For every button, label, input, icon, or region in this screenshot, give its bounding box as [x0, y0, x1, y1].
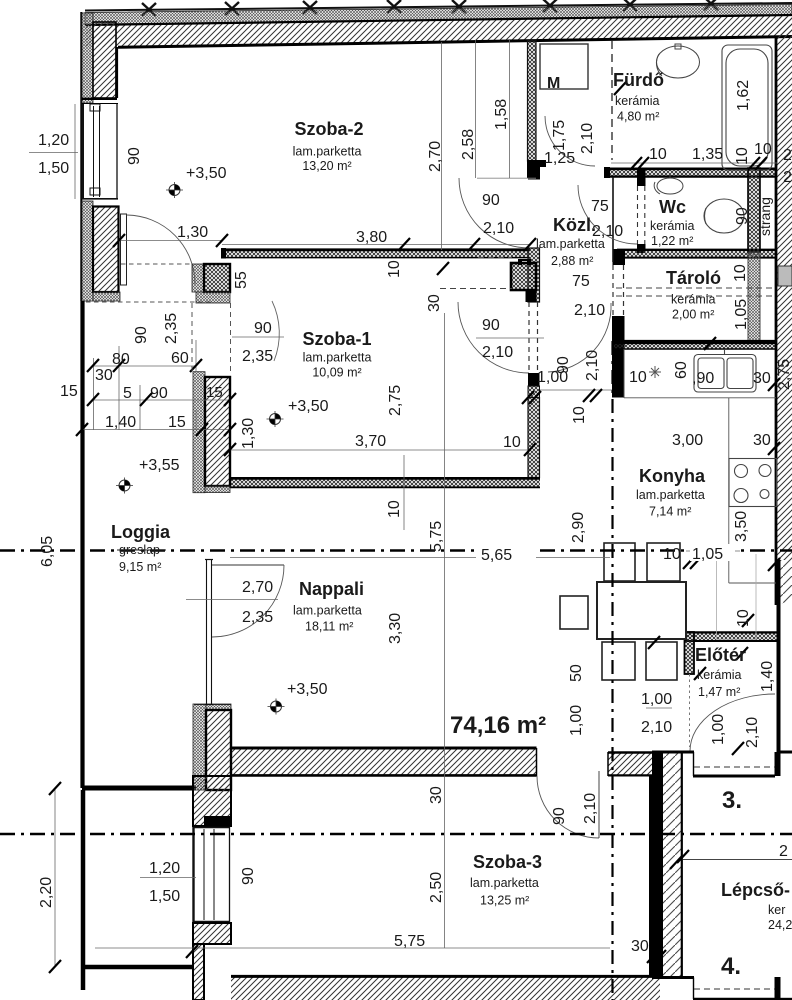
svg-text:30: 30 [753, 432, 771, 449]
svg-text:2: 2 [783, 169, 792, 186]
svg-text:2,35: 2,35 [242, 348, 273, 365]
section line vertical [611, 341, 613, 1000]
svg-text:15: 15 [206, 384, 223, 401]
svg-text:Tároló: Tároló [666, 268, 721, 288]
svg-text:90: 90 [240, 867, 257, 885]
svg-text:3,00: 3,00 [672, 432, 703, 449]
svg-text:10: 10 [629, 369, 647, 386]
svg-text:3,30: 3,30 [387, 613, 404, 644]
section line horizontal B [0, 833, 792, 836]
toilet [704, 199, 744, 233]
Szoba-1 top wall band [222, 250, 530, 258]
niche wall insulation strip [192, 264, 204, 292]
section line horizontal A [0, 549, 792, 552]
svg-text:90: 90 [133, 326, 150, 344]
svg-text:90: 90 [482, 317, 500, 334]
svg-text:lam.parketta: lam.parketta [470, 876, 539, 890]
svg-text:1,50: 1,50 [38, 160, 69, 177]
svg-text:3,70: 3,70 [355, 433, 386, 450]
dim line 3,70 szoba-1 [230, 449, 530, 451]
svg-text:2,10: 2,10 [579, 123, 596, 154]
top dimension line with X ticks [85, 3, 792, 11]
svg-text:1,30: 1,30 [240, 418, 257, 449]
Szoba-2 door leaf [121, 214, 127, 285]
white gap for 5,65 text [476, 542, 536, 561]
svg-text:1,35: 1,35 [692, 146, 723, 163]
svg-text:kerámia: kerámia [671, 293, 716, 307]
svg-text:2,88 m²: 2,88 m² [551, 254, 593, 268]
svg-text:,90: ,90 [692, 370, 714, 387]
svg-text:2,90: 2,90 [570, 512, 587, 543]
svg-text:13,20 m²: 13,20 m² [302, 159, 351, 173]
svg-text:3.: 3. [722, 787, 742, 814]
svg-text:2,10: 2,10 [592, 223, 623, 240]
svg-text:10: 10 [735, 609, 752, 627]
stove with burners [729, 459, 777, 507]
svg-text:10: 10 [663, 546, 681, 563]
svg-text:9,15 m²: 9,15 m² [119, 560, 161, 574]
svg-text:1,20: 1,20 [38, 132, 69, 149]
svg-text:+3,55: +3,55 [139, 457, 180, 474]
Szoba-3 west wall lower [193, 923, 231, 944]
Előtér dims [646, 707, 672, 709]
svg-text:75: 75 [591, 198, 609, 215]
level symbol Nappali [268, 699, 285, 715]
dashes near pillar [440, 288, 512, 290]
level symbol Loggia [116, 478, 133, 494]
svg-text:Közl.: Közl. [553, 215, 596, 235]
Tároló dashed shelf lines [616, 287, 776, 289]
svg-text:2,50: 2,50 [428, 872, 445, 903]
svg-text:90: 90 [126, 147, 143, 165]
5,75 bottom dim [95, 947, 610, 949]
svg-text:10: 10 [503, 434, 521, 451]
lower balcony left line [81, 790, 86, 990]
svg-text:1,62: 1,62 [735, 80, 752, 111]
svg-text:90: 90 [551, 807, 568, 825]
washing machine M square [540, 44, 588, 89]
Nappali-Loggia door leaf [212, 564, 284, 566]
svg-text:1,05: 1,05 [692, 546, 723, 563]
Előtér north wall band [684, 632, 777, 641]
Loggia parapet [80, 301, 84, 788]
svg-text:90: 90 [150, 385, 168, 402]
svg-text:+3,50: +3,50 [288, 398, 329, 415]
svg-text:2,70: 2,70 [427, 141, 444, 172]
svg-text:2,58: 2,58 [460, 129, 477, 160]
right exterior wall hatch [777, 16, 792, 560]
svg-text:+3,50: +3,50 [186, 165, 227, 182]
small fixture above pillar [518, 259, 531, 265]
Loggia/Nappali divider wall lower [193, 704, 206, 790]
svg-text:4.: 4. [721, 953, 741, 980]
niche wall core (55 pillar) [204, 264, 230, 292]
Szoba-3 west wall upper [193, 776, 231, 826]
Szoba-3 south wall band [231, 976, 660, 1000]
shaft lines lower [748, 252, 760, 341]
svg-text:lam.parketta: lam.parketta [293, 145, 362, 159]
svg-text:Wc: Wc [659, 197, 686, 217]
dimension texts rotated [38, 80, 792, 908]
svg-text:3,80: 3,80 [356, 229, 387, 246]
Szoba-3 window [193, 827, 230, 922]
Fürdő sink [656, 44, 699, 78]
left exterior wall (top) insulation [82, 13, 93, 103]
svg-text:strang: strang [757, 197, 773, 236]
svg-text:2,10: 2,10 [744, 717, 761, 748]
svg-text:Lépcső-: Lépcső- [721, 880, 790, 900]
svg-text:Szoba-3: Szoba-3 [473, 852, 542, 872]
svg-text:10: 10 [734, 147, 751, 165]
Fürdő dim line 10/1,35 [611, 162, 777, 164]
dining table [597, 582, 686, 639]
staircase landing line [683, 859, 792, 861]
svg-text:Nappali: Nappali [299, 579, 364, 599]
left wall piece W2 core [93, 207, 119, 293]
svg-text:24,2: 24,2 [768, 918, 792, 932]
svg-text:Szoba-1: Szoba-1 [302, 329, 371, 349]
svg-text:1,20: 1,20 [149, 860, 180, 877]
Szoba-1 door arc [458, 302, 529, 373]
svg-text:10: 10 [571, 406, 588, 424]
svg-text:5,75: 5,75 [428, 521, 445, 552]
Tároló west wall lower / kitchen stub [612, 316, 625, 398]
Közl east boundary thin wall line [612, 177, 614, 262]
gray block right [778, 266, 792, 286]
corner block at Közl top-left [527, 160, 546, 167]
svg-text:5,65: 5,65 [481, 547, 512, 564]
svg-text:Konyha: Konyha [639, 466, 706, 486]
Loggia/Nappali divider wall upper [193, 372, 205, 493]
Szoba-2 entry door arc (from Közl) [459, 178, 529, 248]
Fürdő west boundary dashed [611, 41, 613, 160]
Előtér west wall stub [685, 632, 695, 674]
Előtér east wall line [777, 560, 781, 752]
Nappali-Loggia window [207, 559, 212, 705]
bottom window dim [140, 877, 196, 879]
svg-text:10: 10 [386, 260, 403, 278]
svg-text:Szoba-2: Szoba-2 [294, 119, 363, 139]
dim line 3,80 [222, 244, 530, 246]
Nappali south wall band (left part) [230, 748, 536, 776]
Szoba-1 east wall upper [528, 248, 540, 302]
svg-text:1,00: 1,00 [641, 691, 672, 708]
strang shaft west wall [748, 168, 760, 252]
svg-text:90: 90 [555, 356, 572, 374]
level symbol Szoba-2 [166, 182, 183, 198]
staircase top boundary [652, 751, 694, 754]
svg-text:30: 30 [753, 370, 771, 387]
svg-text:M: M [547, 75, 560, 92]
svg-text:1,40: 1,40 [105, 414, 136, 431]
chairs [560, 543, 680, 680]
Szoba-3 east wall (thick black) [649, 776, 662, 977]
Közl south wall stub [528, 373, 540, 386]
svg-text:90: 90 [254, 320, 272, 337]
svg-text:50: 50 [568, 664, 585, 682]
Nappali south wall band (right part) [608, 752, 656, 776]
svg-text:30: 30 [95, 367, 113, 384]
svg-text:2: 2 [783, 147, 792, 164]
Szoba-3 top wall band [230, 747, 232, 749]
svg-text:90: 90 [482, 192, 500, 209]
svg-text:1,47 m²: 1,47 m² [698, 685, 740, 699]
svg-text:5: 5 [123, 385, 132, 402]
svg-text:5,75: 5,75 [394, 933, 425, 950]
Szoba-1 east wall lower [528, 398, 540, 478]
pillar at Szoba-1 junction [511, 263, 536, 290]
window W1 (left wall, Szoba-2) [82, 104, 118, 199]
svg-text:74,16 m²: 74,16 m² [450, 712, 546, 739]
svg-text:Fürdő: Fürdő [613, 70, 664, 90]
svg-text:2,10: 2,10 [582, 793, 599, 824]
svg-text:1,00: 1,00 [568, 705, 585, 736]
svg-text:2,10: 2,10 [584, 350, 601, 381]
Nappali north wall band [230, 478, 540, 488]
svg-text:10: 10 [386, 500, 403, 518]
svg-text:55: 55 [233, 271, 250, 289]
svg-text:kerámia: kerámia [615, 94, 660, 108]
svg-text:2,10: 2,10 [482, 344, 513, 361]
svg-text:7,14 m²: 7,14 m² [649, 505, 691, 519]
niche passage door arc [272, 301, 279, 361]
Nappali-Loggia door arc [212, 565, 284, 637]
light guides near dining [716, 554, 756, 640]
svg-text:1,25: 1,25 [544, 150, 575, 167]
svg-text:6,05: 6,05 [39, 536, 56, 567]
svg-text:ker: ker [768, 903, 785, 917]
Wc door arc [578, 185, 637, 244]
svg-text:kerámia: kerámia [697, 668, 742, 682]
loggia dashed verticals [191, 303, 193, 371]
dim line 1,30 Szoba-2 niche [119, 240, 222, 242]
nappali window caps [205, 559, 213, 561]
ext lines Szoba-2 verticals [441, 42, 443, 250]
kitchen counter outline [624, 349, 776, 583]
svg-text:2,70: 2,70 [242, 579, 273, 596]
table axis verticals [444, 313, 446, 948]
left wall piece W2 insulation [82, 201, 93, 301]
svg-text:1,40: 1,40 [759, 661, 776, 692]
svg-text:4,80 m²: 4,80 m² [617, 110, 659, 124]
bathtub [722, 45, 772, 170]
svg-text:lam.parketta: lam.parketta [303, 351, 372, 365]
svg-text:2,35: 2,35 [242, 609, 273, 626]
staircase bottom boundary [652, 976, 694, 979]
M-room west wall (thin) [528, 40, 537, 161]
svg-text:10: 10 [754, 141, 772, 158]
svg-text:15: 15 [168, 414, 186, 431]
svg-text:1,30: 1,30 [177, 224, 208, 241]
svg-text:75: 75 [572, 273, 590, 290]
Fürdő south wall band [605, 169, 777, 177]
Fürdő door arc [545, 116, 595, 166]
svg-text:2,10: 2,10 [574, 302, 605, 319]
svg-text:30: 30 [631, 938, 649, 955]
svg-text:13,25 m²: 13,25 m² [480, 894, 529, 908]
Előtér entry door arc [690, 694, 775, 751]
dimension texts upright [38, 132, 772, 955]
svg-text:2,10: 2,10 [483, 220, 514, 237]
svg-text:3,50: 3,50 [733, 511, 750, 542]
Szoba-3 door arc [537, 776, 599, 838]
svg-text:2,35: 2,35 [163, 313, 180, 344]
svg-text:Loggia: Loggia [111, 522, 171, 542]
Wc west wall with door [637, 168, 646, 186]
svg-text:60: 60 [171, 350, 189, 367]
svg-text:1,50: 1,50 [149, 888, 180, 905]
Szoba-1 door opening (dashed jambs) [528, 302, 530, 373]
svg-text:Előtér: Előtér [695, 645, 746, 665]
svg-text:+3,50: +3,50 [287, 681, 328, 698]
staircase wall hatch band [663, 752, 681, 979]
svg-text:lam.parketta: lam.parketta [293, 604, 362, 618]
white gap for 1,05 text [690, 544, 735, 561]
kitchen sink unit [694, 350, 756, 392]
lintel dashed lines [121, 263, 192, 265]
dim 2,35/90 right of niche [232, 336, 284, 338]
level symbol Szoba-1 [267, 411, 284, 427]
svg-text:2: 2 [779, 843, 788, 860]
top exterior wall insulation band [85, 5, 792, 26]
svg-text:1,58: 1,58 [493, 99, 510, 130]
svg-text:10: 10 [649, 146, 667, 163]
svg-text:2,10: 2,10 [641, 719, 672, 736]
svg-text:10: 10 [732, 264, 749, 282]
Tároló south wall band [614, 341, 777, 349]
Wc sink [654, 174, 683, 194]
svg-text:10,09 m²: 10,09 m² [312, 366, 361, 380]
svg-text:2,75: 2,75 [776, 359, 792, 390]
svg-text:2,00 m²: 2,00 m² [672, 308, 714, 322]
svg-text:1,22 m²: 1,22 m² [651, 234, 693, 248]
svg-text:80: 80 [112, 351, 130, 368]
svg-text:18,11 m²: 18,11 m² [305, 620, 353, 634]
Szoba-2/Loggia door arc [127, 215, 196, 284]
left exterior wall outer edge [80, 12, 82, 301]
Közl-Konyha passage door arc [548, 303, 611, 372]
loggia dim lines [93, 365, 196, 367]
top exterior wall core (hatched) [85, 15, 792, 47]
svg-text:15: 15 [60, 383, 78, 400]
svg-text:30: 30 [426, 294, 443, 312]
konyha 1,05 dim [686, 550, 740, 552]
dim line 1,20/1,50 window left [29, 152, 78, 154]
1,00 dim at passage [540, 389, 612, 391]
staircase west wall black bar [652, 752, 663, 978]
svg-text:2,75: 2,75 [387, 385, 404, 416]
svg-text:1,05: 1,05 [733, 299, 750, 330]
svg-text:2,20: 2,20 [38, 877, 55, 908]
left exterior wall core [93, 22, 116, 98]
svg-text:30: 30 [428, 786, 445, 804]
Tároló door dashed opening [612, 265, 614, 316]
svg-text:1,00: 1,00 [710, 714, 727, 745]
light symbol [649, 366, 661, 378]
svg-text:lam.parketta: lam.parketta [636, 488, 705, 502]
svg-text:90: 90 [734, 207, 751, 225]
Tároló west wall corner [613, 249, 626, 265]
Wc/Tároló divider band [617, 250, 777, 258]
svg-text:60: 60 [673, 361, 690, 379]
svg-text:kerámia: kerámia [650, 219, 695, 233]
svg-text:1,75: 1,75 [551, 120, 568, 151]
